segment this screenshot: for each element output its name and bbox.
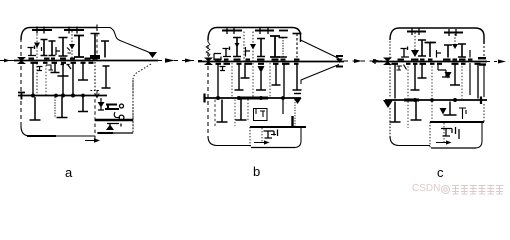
arrowhead 3	[354, 59, 362, 63]
shift rail b lower x253	[252, 63, 254, 97]
pto gear below shaft	[107, 124, 121, 131]
shift rail c lower x432	[431, 63, 433, 99]
housing a: top cover	[21, 28, 97, 41]
pto gear stem upper	[98, 98, 104, 110]
gear c upper small x470	[469, 50, 471, 58]
gear c upper T x448	[444, 45, 452, 58]
gear c pre-box invT x450	[444, 102, 457, 116]
bearing b right cone tip	[336, 56, 343, 67]
gear b upper T x261	[257, 39, 265, 57]
gear a bottom spring x55	[54, 97, 56, 118]
housing a: bottom	[21, 126, 95, 136]
gear b bottom invT x222	[217, 100, 228, 123]
output shaft a	[95, 119, 133, 122]
gear a bottom invT x62	[57, 97, 68, 118]
pto gear c inside: cluster	[441, 127, 459, 139]
countershaft c junction dots	[413, 98, 457, 102]
gear c pre-box cone x443	[440, 108, 447, 115]
pto gear c inside: rail	[443, 123, 445, 142]
gear b bottom box x260	[254, 109, 268, 121]
gear b right wall top cap	[293, 33, 302, 35]
junction tick a x97	[94, 25, 102, 32]
hub blobs on main shaft c	[398, 59, 473, 61]
gear a upper T x44	[41, 40, 48, 56]
gear c upper bracket x439	[437, 50, 442, 58]
gear a lower stem x63	[58, 62, 69, 94]
bearing a countershaft left	[18, 92, 25, 100]
bearing b countershaft left	[203, 94, 205, 103]
centerline after c	[487, 61, 508, 63]
housing c: top cover	[390, 28, 484, 44]
shift rail c bottom x432	[431, 102, 433, 123]
shift rail b lower x232	[231, 63, 233, 97]
gear c bottom invT x416	[411, 102, 422, 121]
pto box c: top thick line	[430, 121, 484, 123]
housing b: left wall dashed	[207, 38, 209, 138]
gear a upper bracket x67	[67, 48, 71, 54]
countershaft b (lower)	[205, 97, 301, 99]
pto box c: left dotted wall	[429, 122, 431, 148]
top gear b2 ticks	[260, 27, 268, 34]
gear a upper bracket x31	[28, 46, 37, 56]
top marks b x279-288	[279, 30, 288, 32]
top gear c1 ticks	[412, 28, 419, 35]
housing c: bottom	[390, 136, 430, 146]
top gear streak b2	[255, 29, 274, 31]
label a	[65, 165, 72, 180]
gear a upper T x63	[59, 38, 68, 57]
pto arrow b	[254, 142, 266, 144]
gear b bottom box marks	[256, 109, 265, 118]
gear a hub blob x95	[90, 55, 100, 59]
gear a lower x33 stem	[32, 62, 34, 94]
top gear streak c2	[444, 31, 463, 33]
watermark glyphs	[441, 183, 505, 197]
gear b upper bracket x248	[246, 47, 251, 57]
housing b: cone upper	[301, 40, 340, 59]
bearing c input left	[383, 58, 392, 62]
gear b lower T x276	[272, 63, 281, 85]
gear a bottom invT x35	[30, 97, 41, 120]
housing b: top cover	[208, 28, 301, 43]
hub blobs on main shaft a	[29, 58, 98, 60]
gear a lower bracket x48	[46, 65, 53, 70]
gear a lower G x106	[102, 66, 111, 88]
shift rail a x95 lower	[91, 62, 100, 91]
bearing c main shaft right	[478, 58, 486, 64]
housing c: left wall	[389, 38, 391, 58]
synchro cone c x455	[452, 44, 458, 49]
gear a lower stem x73	[72, 62, 74, 94]
synchro cone a x72	[69, 44, 75, 50]
gear b upper bracket x218	[214, 54, 221, 61]
synchro cone b lower x261	[258, 66, 265, 73]
gear a upper T x79	[74, 36, 84, 58]
shift rail b bottom x215	[214, 100, 216, 127]
pto gear b inside: rail	[261, 128, 263, 142]
synchro cone c x415	[411, 50, 419, 57]
centerline b to c	[344, 60, 386, 62]
main shaft a	[14, 60, 158, 62]
gear c upper bracket x404	[401, 47, 410, 58]
top gear a2 ticks	[69, 27, 77, 34]
pto gear b small tick	[271, 134, 276, 136]
countershaft b junction dots	[216, 96, 285, 100]
housing a: bottom thick segment	[27, 135, 56, 137]
gear a lower invT x55	[51, 63, 60, 73]
housing a: right bell step	[97, 28, 153, 54]
main shaft c	[382, 61, 487, 63]
gear b bottom invT x241	[236, 100, 247, 121]
pto gear b inside: cluster	[264, 130, 278, 139]
bearing a right bell	[148, 52, 157, 58]
bearing c countershaft right	[480, 97, 482, 105]
output arrow a	[85, 140, 96, 142]
pto small circle 1	[120, 104, 124, 108]
pto box bottom	[97, 132, 133, 134]
pto arrow c	[436, 142, 448, 144]
shift rail a x72	[71, 31, 73, 60]
gear b lower stem x218	[217, 63, 219, 97]
gear b zigzag x295	[294, 100, 296, 127]
top gear b1 ticks	[227, 27, 234, 34]
input tick c	[372, 61, 382, 63]
housing c: right wall to pto box	[483, 104, 485, 122]
shift rail b x244	[243, 32, 245, 62]
top gear streak a2	[64, 29, 84, 31]
gear b lower invT x245	[241, 63, 250, 78]
gear c lower stem x395	[394, 63, 396, 99]
pto arrow down into box	[95, 90, 99, 98]
countershaft a junction dots	[31, 94, 85, 98]
gear b right wall x297	[296, 34, 298, 58]
gear c lower T x415	[411, 63, 420, 90]
shift rail b x253	[252, 32, 254, 62]
top gear streak c1	[407, 30, 426, 32]
shift rail b bottom x235	[234, 100, 236, 127]
gear c upper T x430	[426, 43, 435, 58]
shift rail b bottom x248	[247, 100, 249, 123]
bearing b countershaft right	[294, 98, 302, 104]
gear c lower T x455	[450, 63, 460, 85]
gear a upper T x52	[49, 41, 56, 56]
housing b: bottom	[208, 136, 251, 146]
left wall zigzag b	[206, 42, 210, 57]
top gear a1 ticks	[37, 27, 44, 34]
pto box b: top thick line	[250, 126, 306, 128]
hub blobs under main shaft a	[31, 62, 94, 64]
label b	[253, 164, 260, 179]
gear c lower stem x478	[477, 63, 479, 99]
pto box b: right wall	[294, 128, 301, 148]
countershaft b sleeve	[237, 96, 268, 99]
gear b upper bracket x226	[223, 47, 232, 57]
countershaft c sleeve	[404, 98, 419, 101]
bearing c countershaft left	[383, 100, 393, 108]
shift rail c lower x462	[461, 63, 463, 99]
shift rail c x455	[454, 34, 456, 46]
gear b upper T x237	[233, 38, 241, 57]
pto cone below	[106, 125, 114, 131]
shift rail c lower x408	[407, 63, 409, 99]
hub blobs under main shaft b	[216, 63, 299, 65]
housing c: right wall	[483, 42, 485, 59]
gear b upper T x275	[270, 36, 280, 57]
housing c: left wall lower	[389, 64, 391, 98]
gear c cone x448	[445, 72, 452, 79]
shift rail c x415	[414, 33, 416, 51]
synchro cone b x253	[250, 44, 256, 50]
gear c upper T x462	[458, 44, 466, 57]
housing c: right wall lower	[483, 64, 485, 97]
gear b lower stem x284	[283, 63, 285, 97]
gear a lower marks x65	[61, 65, 72, 70]
shift rail a lower x46	[45, 62, 47, 95]
gear b blob x295	[291, 116, 293, 126]
watermark CSDN	[412, 183, 440, 194]
gear a upper bracket x58	[56, 47, 60, 55]
gear b lower hub x222	[220, 67, 226, 71]
pto box b: bottom	[251, 147, 295, 149]
gear a bottom invT x83	[78, 97, 88, 112]
housing c: left wall bottom	[389, 108, 391, 138]
gear b lower T x297	[293, 63, 302, 90]
gear a lower T x83	[78, 63, 88, 80]
gear c upper cap wide x430	[425, 42, 437, 44]
pto gear cluster	[105, 105, 119, 110]
shift rail c bottom x408	[407, 102, 409, 129]
housing a: inner wall dashed x97	[96, 28, 98, 58]
synchro cone b x237	[235, 43, 240, 48]
hub blobs on main shaft b	[215, 59, 300, 61]
gear c step bracket x440	[438, 63, 450, 77]
top gear streak b1	[222, 29, 242, 31]
arrowhead 4	[373, 59, 381, 63]
arrowhead left entry	[4, 59, 10, 63]
gear b lower T x239	[235, 63, 244, 90]
shift rail a x37	[36, 31, 38, 94]
gear b lower T x261	[256, 72, 266, 90]
housing a: bell lower edge	[133, 64, 151, 132]
arrowhead 5	[498, 60, 506, 64]
countershaft a (lower)	[18, 95, 107, 97]
gear c lower invT x422	[418, 63, 427, 78]
gear a upper T x95	[91, 34, 100, 57]
gear b spring x283	[282, 38, 284, 58]
pto small circle 2	[119, 115, 124, 120]
bearing b input left	[204, 58, 213, 62]
gear c lower stem x470	[469, 63, 471, 95]
countershaft c (lower)	[385, 99, 487, 101]
pto box c: right wall	[475, 123, 482, 148]
bearing a input left	[17, 57, 26, 61]
input arrow left	[0, 60, 14, 62]
gear a upper tick x41	[41, 47, 43, 51]
pto box b: left dotted wall	[249, 127, 251, 148]
housing b: cone lower	[301, 65, 339, 85]
gear c lower hub marks x399	[397, 65, 407, 71]
pto box c: bottom	[431, 147, 476, 149]
label c	[437, 165, 444, 180]
synchro cone a x37	[34, 43, 40, 49]
hub blobs under main shaft c	[392, 63, 481, 65]
pto box a: right dotted wall	[132, 80, 134, 134]
shift rail b lower x270	[269, 63, 271, 97]
arrowhead 2	[185, 59, 193, 63]
pto box bottom thick part	[98, 132, 113, 134]
arrowhead 1	[165, 58, 175, 62]
gear a lower hub bracket x39	[37, 67, 43, 71]
pto post bearing triangle	[98, 102, 105, 108]
gear c bottom invT x395	[390, 102, 401, 123]
gear a upper T x105	[101, 41, 109, 58]
housing a: left wall dashed	[20, 38, 22, 128]
gear c upper T x422	[418, 40, 426, 56]
centerline a to b	[158, 60, 202, 62]
pto box a: left dashed wall	[94, 93, 96, 140]
main shaft b	[198, 61, 344, 63]
gear b T x283 caps	[279, 38, 288, 58]
pto hook	[114, 112, 120, 118]
top gear streak a1	[32, 29, 52, 31]
top gear c2 ticks	[449, 29, 456, 36]
gear b bottom stem x283	[282, 100, 284, 115]
gear c pre-box bracket x462	[459, 108, 466, 119]
